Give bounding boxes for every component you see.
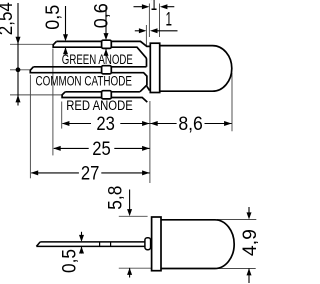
dimension 8,6 line left (150, 123, 176, 125)
dimension 0,6 up arrow (104, 49, 109, 56)
svg-text:5,8: 5,8 (105, 186, 127, 210)
dimension 4,9 down arrow (247, 212, 252, 219)
LED body flange front view (150, 43, 159, 92)
extension tick lead3 center (10, 94, 62, 96)
dimension 1 first line left (134, 6, 144, 8)
dimension 27 left arrow (31, 170, 39, 175)
svg-text:25: 25 (92, 138, 111, 160)
svg-text:RED ANODE: RED ANODE (66, 98, 133, 113)
extension line flange right top (159, 4, 161, 38)
dimension 27 right arrow (142, 170, 150, 175)
dimension 0,5 line top (65, 6, 67, 35)
common cathode lead bottom edge (30, 67, 147, 92)
crimp red lead (102, 91, 112, 99)
extension tick lead2 center (10, 69, 31, 71)
dimension 25 line right (114, 147, 149, 149)
dimension 2,54 up arrow (16, 95, 21, 103)
extension line body left (149, 101, 151, 183)
extension line common lead tip (29, 75, 31, 179)
dimension 23 line right (120, 123, 149, 125)
LED dome side view (161, 220, 234, 269)
lead side view tip chamfer (36, 242, 40, 247)
lead side view tick 2 (110, 242, 112, 246)
dimension 5,8 tail (129, 268, 131, 278)
dimension 25 left arrow (53, 146, 61, 151)
dimension 1 second line right (157, 30, 178, 32)
dimension 0,6 down arrow (104, 33, 109, 40)
svg-text:0,5: 0,5 (58, 249, 80, 273)
dimension 5,8 line top (129, 190, 131, 210)
dimension 1 first left arrow (160, 4, 168, 9)
extension tick bottom left side view (119, 267, 151, 269)
lead side view bottom edge (36, 245, 144, 247)
dimension 2,54 down arrow (16, 37, 21, 45)
green anode lead top edge (56, 41, 150, 46)
dimension 1 second line left (135, 30, 141, 32)
extension line flange left top (148, 4, 150, 38)
extension line shoulder top (145, 25, 147, 46)
dimension 27 line left (31, 172, 79, 174)
svg-text:27: 27 (81, 163, 100, 185)
dimension 0,5 down arrow (63, 34, 68, 41)
svg-text:4,9: 4,9 (239, 229, 258, 256)
dimension 5,8 up arrow (127, 268, 132, 275)
green anode lead bottom edge (53, 41, 146, 66)
dimension 23 left arrow (62, 121, 70, 126)
svg-text:23: 23 (96, 113, 115, 135)
svg-text:8,6: 8,6 (178, 113, 203, 135)
svg-text:0,6: 0,6 (91, 3, 113, 28)
dimension 2,54 dot (16, 67, 21, 72)
dimension 0,6 tail (105, 49, 107, 56)
dimension 8,6 line right (205, 123, 232, 125)
svg-text:0,5: 0,5 (42, 5, 64, 30)
dimension 8,6 right arrow (224, 121, 232, 126)
red anode lead top edge (65, 91, 140, 93)
dimension 0,6 line top (105, 5, 107, 34)
extension line green lead tip (52, 49, 54, 156)
red anode lead shoulder sliver (147, 86, 150, 90)
dimension 23 right arrow (142, 121, 150, 126)
LED body dome front view (160, 46, 232, 92)
lead paddle capsule side view (145, 238, 151, 250)
dimension 5,8 down arrow (127, 209, 132, 216)
dimension 25 right arrow (142, 146, 150, 151)
dimension 0,5 tail (65, 47, 67, 54)
extension tick bottom right side view (216, 268, 256, 270)
dimension 0,5 side tail (81, 247, 83, 254)
dimension 4,9 up arrow (247, 268, 252, 275)
svg-text:2,54: 2,54 (0, 2, 17, 35)
dimension 4,9 tail (248, 268, 250, 283)
dimension 8,6 left arrow (150, 121, 158, 126)
extension tick dome top side view (217, 219, 256, 221)
dimension 1 second right arrow (139, 28, 147, 33)
dimension 1 first line right (166, 6, 174, 8)
common cathode lead top edge (33, 66, 146, 68)
dimension 0,5 side line top (81, 232, 83, 236)
dimension 2,54 line (17, 3, 19, 106)
dimension 0,5 up arrow (63, 47, 68, 54)
dimension 1 first right arrow (142, 4, 150, 9)
dimension 23 line left (63, 123, 92, 125)
svg-text:1: 1 (165, 9, 172, 31)
dimension 1 second left arrow (150, 28, 158, 33)
extension tick flange top side view (119, 215, 148, 217)
LED flange side view (152, 217, 161, 271)
dimension 25 line left (54, 147, 89, 149)
crimp common lead (102, 66, 112, 74)
lead side view tick 1 (99, 242, 101, 246)
crimp green lead (102, 40, 112, 48)
extension tick lead1 center (10, 43, 53, 45)
dimension 0,5 side up arrow (79, 247, 84, 254)
svg-text:1: 1 (151, 0, 158, 15)
extension line red lead tip (61, 102, 63, 129)
svg-text:GREEN ANODE: GREEN ANODE (62, 52, 133, 67)
dimension 27 line right (101, 172, 149, 174)
lead side view top edge (40, 241, 145, 243)
dimension 4,9 line top (248, 207, 250, 213)
red anode lead bottom edge (62, 92, 147, 102)
svg-text:COMMON CATHODE: COMMON CATHODE (35, 74, 132, 89)
extension line body right (231, 73, 233, 131)
dimension 0,5 side down arrow (79, 235, 84, 242)
